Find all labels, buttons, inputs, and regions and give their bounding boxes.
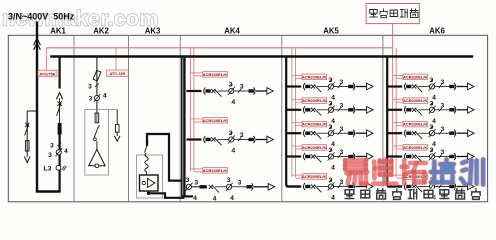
svg-text:4: 4: [193, 195, 197, 202]
fuse in AK2 box: [96, 110, 98, 113]
fuse solid on riser: [58, 123, 62, 135]
junction dot below box: [147, 192, 151, 196]
AK6 meter label 2: [403, 98, 428, 104]
main LV bus: [50, 55, 473, 58]
AK5 meter label 1: [302, 74, 327, 80]
outgoing arrow AK1 tap: [24, 156, 30, 162]
AK2 feeder wire: [96, 57, 98, 110]
AK4 feeder branch 1: [187, 82, 274, 106]
breaker AK1 tap: [25, 123, 29, 127]
svg-text:4: 4: [103, 92, 107, 99]
hinge dot: [146, 140, 148, 142]
divider AK4/AK5: [281, 35, 283, 202]
svg-text:3: 3: [89, 96, 93, 103]
svg-text:ACR220EL/K: ACR220EL/K: [302, 145, 327, 150]
svg-text:AK3: AK3: [145, 27, 161, 36]
U loop bottom: [36, 190, 61, 193]
wire tick 3 AK2: [95, 83, 99, 87]
bottom return wire: [149, 193, 185, 198]
AK5 meter label 5: [302, 174, 327, 180]
CT circle AK2: [94, 95, 99, 100]
AK6 feeder branch 3: [387, 124, 474, 148]
AK1 meter label box: [38, 70, 57, 77]
svg-text:ATC/75K: ATC/75K: [39, 71, 55, 76]
AK2 meter label box: [106, 70, 128, 77]
svg-text:ATC-100: ATC-100: [109, 71, 126, 76]
divider AK5/AK6: [382, 35, 384, 202]
red drop from comm box: [392, 24, 394, 48]
AK3 outer cabinet box: [137, 155, 163, 198]
svg-text:ACR220EL/K: ACR220EL/K: [403, 98, 428, 103]
AK6 meter label 3: [403, 121, 428, 127]
incoming feeder line: [36, 22, 38, 192]
hook switch in AK2 box: [94, 125, 99, 137]
riser bottom stub: [182, 195, 193, 197]
PLC amplifier box: [140, 175, 159, 191]
svg-text:3: 3: [186, 177, 190, 184]
svg-text:3: 3: [194, 179, 198, 186]
svg-text:ACR220EL/K: ACR220EL/K: [403, 74, 428, 79]
svg-text:4: 4: [64, 148, 68, 155]
svg-text:ACR220EL/K: ACR220EL/K: [203, 168, 228, 173]
AK4 meter labels: [203, 72, 228, 78]
incoming double chevron arrow: [34, 38, 41, 50]
AK1 return riser: [58, 57, 60, 89]
AK6 feeder branch 2: [387, 100, 474, 124]
AK6 meter label 1: [403, 74, 428, 80]
AK5 riser: [286, 57, 301, 187]
AK5 feeder branch 2: [286, 100, 373, 124]
AK5 feeder branch 1: [286, 77, 373, 101]
AK6 meter label 4: [403, 145, 428, 151]
AK5 meter label 3: [302, 121, 327, 127]
svg-text:ACR220EL/K: ACR220EL/K: [302, 174, 327, 179]
AK5 feeder branch 4: [286, 147, 373, 171]
svg-text:3: 3: [48, 152, 52, 159]
AK6 feeder branch 5: [387, 177, 474, 201]
AK5 feeder branch 5: [286, 177, 373, 201]
svg-text:ACR220EL/K: ACR220EL/K: [203, 72, 228, 77]
red drops AK5: [291, 48, 293, 177]
AK5 meter label 2: [302, 98, 327, 104]
svg-text:ACR220EL/K: ACR220EL/K: [302, 122, 327, 127]
CT circle AK1: [56, 150, 61, 155]
coil: [145, 153, 148, 175]
AK4 feeder branch 2: [187, 130, 274, 154]
knife switch AK3: [145, 142, 149, 153]
divider AK1/AK2: [73, 35, 75, 202]
svg-text:3: 3: [238, 179, 242, 186]
svg-text:ACR220EL/K: ACR220EL/K: [203, 118, 228, 123]
svg-text:ACR220EL/K: ACR220EL/K: [302, 74, 327, 79]
AK2 fused tap: [116, 110, 118, 125]
AK6 riser: [387, 57, 402, 187]
divider AK3/AK4: [179, 35, 181, 202]
AK2 box top extension wire: [109, 109, 118, 111]
svg-text:3: 3: [50, 143, 54, 150]
red drops AK4: [189, 48, 191, 172]
chevron arrow on riser: [56, 93, 62, 100]
AK6 feeder branch 1: [387, 77, 474, 101]
svg-text:AK4: AK4: [224, 27, 240, 36]
panel frame: [8, 35, 487, 202]
tilted fuse-switch AK2: [93, 70, 101, 81]
svg-text:AK1: AK1: [50, 27, 66, 36]
red drop to AK2 meter: [115, 48, 117, 70]
red drops AK6: [392, 48, 394, 177]
surge arrester delta AK2: [89, 149, 105, 166]
svg-text:ACR220EL/K: ACR220EL/K: [403, 145, 428, 150]
watermark slogan row: [345, 190, 354, 199]
breaker AK1 riser: [57, 101, 61, 105]
svg-text:ACR220EL/K: ACR220EL/K: [302, 98, 327, 103]
fuse AK1 tap: [25, 141, 29, 151]
svg-text:3: 3: [227, 177, 231, 184]
svg-text:L3: L3: [44, 166, 52, 173]
red comm bus wire: [46, 47, 393, 49]
AK5 feeder branch 3: [286, 124, 373, 148]
AK2 equipment box: [85, 110, 109, 175]
svg-text:ACR220EL/K: ACR220EL/K: [403, 122, 428, 127]
AK4 riser pair: [181, 57, 183, 197]
red drop to AK1 meter: [45, 48, 47, 70]
svg-text:3/N~400V 50Hz: 3/N~400V 50Hz: [8, 12, 75, 22]
svg-text:3: 3: [88, 84, 92, 91]
svg-text:AK5: AK5: [323, 27, 339, 36]
AK5 meter label 4: [302, 145, 327, 151]
watermark big characters: [345, 160, 367, 183]
AK3 supply loop wire: [147, 134, 182, 181]
communication manager box (Chinese label): [366, 4, 419, 24]
divider AK2/AK3: [128, 35, 130, 202]
svg-text:4: 4: [213, 196, 217, 203]
AK6 meter label 5: [403, 174, 428, 180]
AK1 tap wire: [27, 110, 37, 112]
svg-text:AK6: AK6: [429, 27, 445, 36]
AK6 feeder branch 4: [387, 147, 474, 171]
svg-text:4: 4: [230, 195, 234, 202]
svg-text:AK2: AK2: [93, 27, 109, 36]
wire count tick 3: [57, 143, 61, 146]
AK4 feeder branch 3 with panel CT: [186, 177, 275, 203]
